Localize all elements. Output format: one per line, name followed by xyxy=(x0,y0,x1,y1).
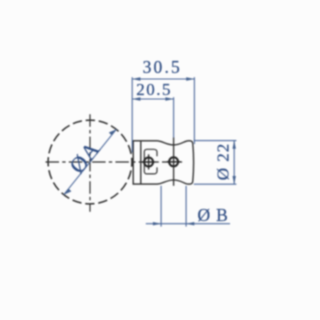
tube circle OA (dashed) xyxy=(48,120,132,204)
H1 crosshair vertical xyxy=(148,154,150,169)
dim 20.5 line xyxy=(132,98,173,100)
dim 30.5 ext left xyxy=(131,77,133,152)
OA arrow upper-right xyxy=(109,129,117,135)
dim 20.5 arrows xyxy=(132,97,140,100)
H2 crosshair horizontal xyxy=(167,161,181,163)
hole H2 xyxy=(169,157,178,166)
dim 30.5 ext right xyxy=(193,77,195,144)
svg-text:30.5: 30.5 xyxy=(143,57,182,77)
dim O22 ext bottom xyxy=(194,183,237,185)
dim 20.5 ext right xyxy=(173,97,175,137)
dim OB line xyxy=(146,223,230,225)
dim OB ext right xyxy=(185,186,187,227)
body outline xyxy=(133,141,193,184)
dim 30.5 line xyxy=(132,78,194,80)
svg-text:Ø B: Ø B xyxy=(198,205,229,225)
saddle edge line xyxy=(140,141,142,184)
dim OB arrows (outside pointing in) xyxy=(153,222,161,225)
dim O22 ext top xyxy=(194,140,237,142)
hole H1 xyxy=(144,158,153,167)
dim O22 arrows xyxy=(233,141,236,149)
horizontal centerline xyxy=(46,161,184,163)
svg-text:ØA: ØA xyxy=(64,136,105,178)
svg-text:20.5: 20.5 xyxy=(136,80,172,99)
dim OB ext left xyxy=(160,186,162,227)
H1 crosshair horizontal xyxy=(142,161,156,163)
svg-text:Ø 22: Ø 22 xyxy=(213,143,232,181)
set screw slot (rounded rect, right edge broken) xyxy=(144,149,157,174)
OA arrow lower-left xyxy=(64,189,72,195)
dim O22 vertical line xyxy=(233,141,235,185)
vertical centerline of circle xyxy=(89,114,91,212)
OA diagonal dimension line xyxy=(64,129,117,195)
dim 30.5 arrows xyxy=(132,77,140,80)
H2 vertical centerline (long) xyxy=(173,137,175,185)
